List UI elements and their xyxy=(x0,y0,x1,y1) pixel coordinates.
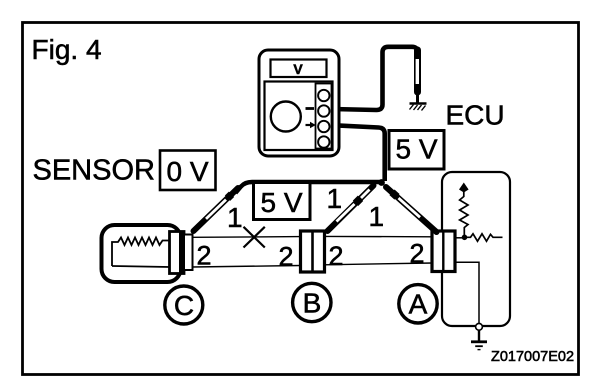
svg-text:A: A xyxy=(409,289,428,320)
terminal circle B xyxy=(293,283,331,321)
svg-text:2: 2 xyxy=(329,241,344,271)
value box 5 V (at B) xyxy=(254,183,311,220)
resistor (horizontal, to comparator) xyxy=(465,234,503,241)
wire (bottom, B to A) xyxy=(324,263,433,265)
wire (A pin2 to ECU junction) xyxy=(452,237,462,239)
test probe at B pin1 xyxy=(328,186,374,232)
connector A xyxy=(432,231,455,272)
wire (sensor bottom) xyxy=(112,266,170,267)
svg-text:5 V: 5 V xyxy=(260,187,302,218)
test probe at C pin1 xyxy=(194,188,239,231)
multimeter display window xyxy=(271,60,327,78)
wire (multimeter minus lead to ground probe) xyxy=(332,47,418,110)
svg-text:V: V xyxy=(293,61,303,77)
node (chassis point on ECU case) xyxy=(476,323,483,330)
multimeter terminal 3 xyxy=(318,121,329,132)
node (probe junction) xyxy=(378,179,385,186)
multimeter terminal 4 xyxy=(318,136,329,147)
svg-text:1: 1 xyxy=(227,202,243,233)
svg-text:1: 1 xyxy=(327,183,343,214)
multimeter body xyxy=(259,50,339,156)
value box 0 V xyxy=(160,151,216,191)
wire (top, B to A) xyxy=(324,235,433,237)
resistor (pull-up, vertical) xyxy=(460,197,468,238)
wire (junction to sensor-C probe) xyxy=(236,182,382,193)
svg-text:C: C xyxy=(174,290,194,321)
ground probe xyxy=(414,50,421,103)
multimeter minus mark xyxy=(306,107,315,110)
svg-text:Fig. 4: Fig. 4 xyxy=(32,34,102,65)
node (ECU input junction) xyxy=(462,235,468,241)
ground (ECU) xyxy=(471,330,487,350)
svg-text:ECU: ECU xyxy=(446,100,505,131)
multimeter dial xyxy=(271,102,301,132)
multimeter arrow mark xyxy=(306,122,316,128)
open-circuit X mark xyxy=(244,227,265,248)
multimeter button column xyxy=(316,84,332,149)
wire (top, C to B) xyxy=(192,236,301,239)
svg-text:2: 2 xyxy=(410,239,425,269)
wire (bottom, C to B) xyxy=(192,266,301,268)
multimeter front panel xyxy=(265,82,333,151)
terminal circle A xyxy=(399,285,437,323)
wire (multimeter plus lead down to probe junction) xyxy=(332,125,385,181)
svg-text:B: B xyxy=(303,287,322,318)
svg-text:SENSOR: SENSOR xyxy=(33,155,155,187)
ECU box xyxy=(442,172,510,326)
test probe at A pin1 xyxy=(386,187,437,232)
sensor body xyxy=(102,225,181,282)
svg-text:2: 2 xyxy=(279,242,294,272)
svg-text:1: 1 xyxy=(369,201,385,232)
power arrow (pull-up supply) xyxy=(459,183,469,198)
svg-text:0 V: 0 V xyxy=(166,156,208,187)
multimeter terminal 2 xyxy=(318,105,329,116)
connector C xyxy=(170,232,193,274)
multimeter terminal 1 xyxy=(318,90,329,101)
terminal circle C xyxy=(165,286,203,324)
resistor (sensor element) xyxy=(112,238,170,267)
connector B xyxy=(301,231,325,272)
svg-text:5 V: 5 V xyxy=(395,134,437,165)
ground hatching (body ground) xyxy=(410,104,427,111)
svg-text:2: 2 xyxy=(197,241,212,271)
svg-text:Z017007E02: Z017007E02 xyxy=(491,349,574,365)
value box 5 V (at ECU) xyxy=(389,131,444,170)
wire (A bottom pin to ECU ground) xyxy=(452,262,479,323)
